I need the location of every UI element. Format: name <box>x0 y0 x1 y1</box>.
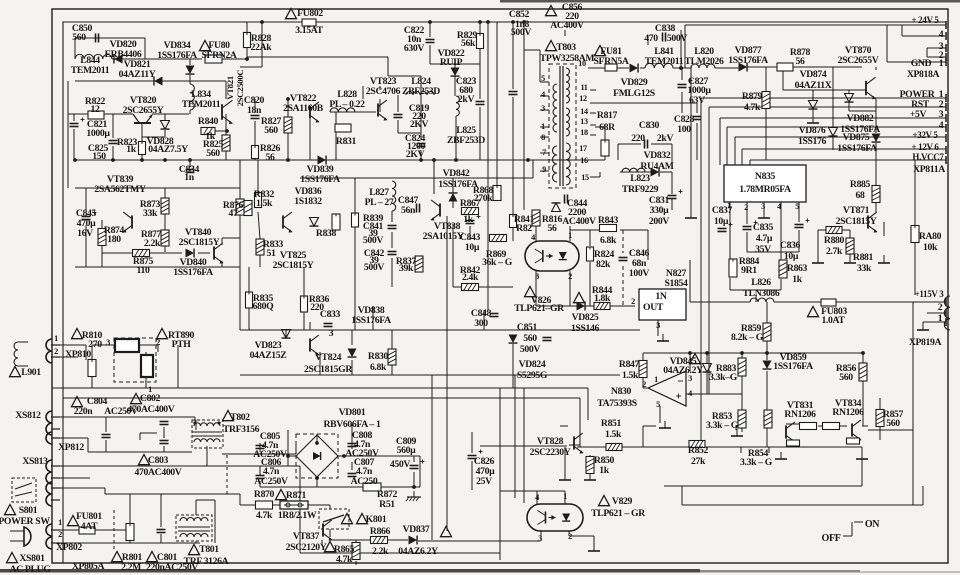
svg-text:R863: R863 <box>787 263 808 274</box>
svg-text:ON: ON <box>865 519 880 530</box>
wire <box>287 443 289 466</box>
warning triangle <box>690 354 701 364</box>
wire <box>642 426 644 447</box>
svg-text:AC250V: AC250V <box>254 476 288 487</box>
wire <box>782 67 784 90</box>
ground VT828e <box>564 473 566 480</box>
svg-text:R852: R852 <box>688 445 709 456</box>
wire <box>861 447 863 486</box>
junction <box>478 20 482 24</box>
svg-text:5: 5 <box>541 74 545 83</box>
wire <box>112 114 114 138</box>
wire <box>590 89 596 91</box>
wire <box>56 356 78 358</box>
junction <box>526 158 530 162</box>
wire <box>102 252 133 254</box>
optocoupler V826 <box>525 241 579 271</box>
inductor L824 <box>406 92 434 95</box>
junction b4 <box>412 485 416 489</box>
wire <box>254 99 256 113</box>
wire <box>729 278 731 290</box>
wire <box>105 417 107 432</box>
wire <box>741 149 743 165</box>
wire <box>780 202 782 260</box>
wire <box>927 312 946 314</box>
wire <box>455 116 457 160</box>
svg-text:4: 4 <box>541 90 545 99</box>
capacitor C842 <box>388 251 397 253</box>
wire <box>194 417 196 421</box>
resistor R828 <box>244 33 251 48</box>
inductor L828 <box>330 108 355 112</box>
diode C844d <box>552 203 561 212</box>
wire <box>766 301 768 303</box>
resistor R832b <box>244 201 252 216</box>
wire <box>569 226 571 241</box>
wire <box>690 301 750 303</box>
svg-text:04AZ15Z: 04AZ15Z <box>250 350 287 361</box>
wire <box>681 68 683 80</box>
svg-text:1.5k: 1.5k <box>256 198 273 209</box>
wire <box>452 224 454 287</box>
wire <box>774 301 821 303</box>
warning triangle <box>157 329 168 339</box>
wire <box>689 260 691 302</box>
wire <box>798 230 800 252</box>
ground V829 <box>593 544 595 551</box>
wire <box>742 148 946 150</box>
svg-text:680Q: 680Q <box>253 301 274 312</box>
wire <box>145 352 147 355</box>
wire <box>568 531 570 536</box>
wire <box>671 172 673 194</box>
svg-text:2kV: 2kV <box>657 133 674 144</box>
wire <box>52 387 588 389</box>
wire <box>735 136 946 138</box>
capacitor C845 <box>82 216 91 218</box>
transistor VT839 <box>131 215 133 228</box>
svg-text:100: 100 <box>677 124 691 135</box>
svg-text:1N: 1N <box>655 291 666 302</box>
svg-text:1n: 1n <box>184 172 194 183</box>
inductor L841 <box>645 63 673 68</box>
pin tick <box>945 21 947 29</box>
warning triangle <box>441 527 452 537</box>
svg-text:04AZ6.2Y: 04AZ6.2Y <box>398 546 438 557</box>
svg-text:12: 12 <box>91 104 100 115</box>
wire <box>849 254 851 260</box>
capacitor C802b <box>160 440 169 442</box>
wire <box>177 345 179 388</box>
capacitor C838 <box>662 33 664 42</box>
svg-text:56: 56 <box>266 152 275 163</box>
resistor coupling2 <box>823 423 840 430</box>
svg-text:R871: R871 <box>286 490 307 501</box>
wire <box>398 132 421 134</box>
wire <box>195 420 197 430</box>
capacitor C801 <box>157 529 166 531</box>
wire <box>512 22 514 89</box>
wire <box>564 30 566 36</box>
diode row2 <box>154 77 163 86</box>
svg-text:+5V: +5V <box>910 109 927 120</box>
warning triangle <box>574 293 585 303</box>
wire <box>682 504 923 506</box>
svg-text:150: 150 <box>92 151 106 162</box>
wire <box>73 129 75 160</box>
diode VD875 <box>872 134 881 143</box>
wire <box>879 398 881 410</box>
ground XP819A <box>922 323 924 330</box>
resistor R856 <box>859 363 867 381</box>
svg-text:R885: R885 <box>850 179 871 190</box>
capacitor C846 <box>619 257 628 259</box>
svg-text:2SC1815GR: 2SC1815GR <box>304 364 353 375</box>
capacitor C852 <box>509 91 518 93</box>
svg-text:1000µ: 1000µ <box>86 128 110 139</box>
wire <box>741 394 743 410</box>
warning triangle <box>223 411 234 421</box>
svg-text:VD874: VD874 <box>800 69 827 80</box>
wire <box>715 67 739 69</box>
wire <box>112 146 114 160</box>
wire <box>351 462 353 470</box>
wire <box>91 345 93 359</box>
svg-text:+32V 5: +32V 5 <box>912 130 938 140</box>
svg-text:R838: R838 <box>316 228 337 239</box>
svg-text:1: 1 <box>541 122 545 131</box>
wire <box>590 134 596 136</box>
svg-text:RA80: RA80 <box>919 231 942 242</box>
svg-text:4AT: 4AT <box>81 521 98 532</box>
wire <box>225 151 227 160</box>
svg-text:4.7µ: 4.7µ <box>756 233 773 244</box>
svg-text:2: 2 <box>54 347 58 356</box>
wire <box>569 535 594 537</box>
wire <box>912 302 914 505</box>
resistor R873 <box>161 198 169 214</box>
wire <box>221 238 223 245</box>
svg-text:ZBF253D: ZBF253D <box>402 86 440 97</box>
wire <box>75 80 226 82</box>
wire <box>480 445 567 447</box>
svg-text:1: 1 <box>568 231 572 240</box>
svg-text:+ 24V 5: + 24V 5 <box>911 15 939 25</box>
svg-text:300: 300 <box>474 318 488 329</box>
wire <box>532 160 534 178</box>
diode VD822 <box>451 68 460 77</box>
svg-text:R866: R866 <box>370 526 391 537</box>
svg-text:3: 3 <box>541 104 545 113</box>
wire <box>316 434 318 443</box>
wire <box>479 49 481 99</box>
junction b2 <box>315 476 319 480</box>
wire <box>338 455 420 457</box>
svg-text:04AZ7.5Y: 04AZ7.5Y <box>148 144 188 155</box>
wire <box>479 107 481 160</box>
wire <box>706 373 708 394</box>
wire <box>261 22 263 67</box>
wire <box>590 124 596 126</box>
svg-text:4: 4 <box>939 29 944 40</box>
resistor R878 <box>777 63 793 71</box>
svg-text:POWER SW: POWER SW <box>0 516 50 527</box>
svg-text:1SS176FA: 1SS176FA <box>773 361 813 372</box>
wire <box>105 440 107 452</box>
wire <box>157 345 159 352</box>
inductor C823coil <box>456 96 459 116</box>
svg-text:1k: 1k <box>463 214 473 225</box>
svg-text:10µ: 10µ <box>714 216 729 227</box>
svg-text:2SC2120Y: 2SC2120Y <box>286 542 327 553</box>
switch S801 box <box>12 478 36 502</box>
warning triangle <box>68 516 79 526</box>
wire <box>848 103 850 111</box>
ground VT834e <box>861 452 863 459</box>
wire <box>647 289 649 306</box>
warning triangle <box>200 41 211 51</box>
svg-text:K801: K801 <box>366 514 387 525</box>
ground N835p3 <box>763 211 765 218</box>
wire <box>413 472 415 487</box>
junction <box>73 158 77 162</box>
connector XS812 pins <box>46 411 52 423</box>
wire <box>351 443 353 449</box>
wire <box>487 22 489 310</box>
svg-text:1SS176FA: 1SS176FA <box>351 315 391 326</box>
svg-text:2: 2 <box>568 532 572 541</box>
wire <box>569 444 580 446</box>
wire <box>746 232 748 252</box>
wire <box>780 279 782 290</box>
svg-text:2: 2 <box>156 338 160 347</box>
wire <box>139 433 141 440</box>
svg-text:68R: 68R <box>599 122 616 133</box>
wire <box>616 67 629 69</box>
transistor VT837 <box>322 523 324 536</box>
svg-text:PL – 27: PL – 27 <box>365 197 394 208</box>
svg-text:6.8k: 6.8k <box>370 362 387 373</box>
resistor R852 <box>689 441 705 448</box>
wire <box>726 127 728 165</box>
wire <box>535 226 537 241</box>
wire <box>92 344 115 346</box>
svg-text:110: 110 <box>137 265 150 276</box>
svg-text:200V: 200V <box>649 216 669 227</box>
wire <box>195 500 197 515</box>
resistor R831 <box>335 124 351 132</box>
resistor R880 <box>826 227 842 234</box>
wire <box>469 226 471 240</box>
wire <box>129 542 131 543</box>
ground VD874 <box>812 116 814 123</box>
wire <box>536 305 577 307</box>
svg-text:ZBF253D: ZBF253D <box>447 135 485 146</box>
wire <box>222 237 240 239</box>
wire <box>164 130 166 137</box>
wire <box>479 22 481 34</box>
pin tick <box>945 124 947 132</box>
wire <box>879 426 881 440</box>
wire <box>590 159 596 161</box>
wire <box>727 126 946 128</box>
capacitor C841 <box>388 225 397 227</box>
svg-text:1: 1 <box>563 492 567 501</box>
wire <box>330 111 376 113</box>
svg-text:1SS176FA: 1SS176FA <box>173 267 213 278</box>
svg-text:TPW3258AM: TPW3258AM <box>540 53 595 64</box>
wire <box>705 446 862 448</box>
resistor R868 <box>493 186 501 201</box>
wire <box>500 490 565 492</box>
capacitor C806 <box>256 475 265 477</box>
resistor R840 <box>201 128 215 135</box>
diode VD882 <box>845 94 854 103</box>
warning triangle <box>72 397 83 407</box>
svg-text:1S1832: 1S1832 <box>294 196 322 207</box>
warning triangle <box>5 505 16 515</box>
capacitor C822 <box>426 39 435 41</box>
svg-text:39k: 39k <box>399 263 414 274</box>
wire <box>536 491 538 504</box>
capacitor C848 <box>490 313 499 315</box>
wire <box>798 202 800 222</box>
wire <box>902 35 946 37</box>
warning triangle <box>595 46 606 56</box>
svg-text:500V: 500V <box>511 27 531 38</box>
resistor R866 <box>371 537 388 544</box>
wire <box>659 406 661 423</box>
wire <box>883 255 885 260</box>
diode VD874 <box>809 101 818 110</box>
svg-text:1SS176FA: 1SS176FA <box>157 50 197 61</box>
wire <box>479 286 513 288</box>
svg-text:27k: 27k <box>691 456 706 467</box>
wire <box>564 491 566 504</box>
wire <box>240 504 256 506</box>
svg-text:2SC4706: 2SC4706 <box>366 86 401 97</box>
junction <box>419 158 423 162</box>
wire <box>300 552 500 554</box>
svg-text:AC400V: AC400V <box>550 20 584 31</box>
wire <box>862 381 864 426</box>
transistor VT820 <box>133 114 139 123</box>
svg-text:PTH: PTH <box>172 339 192 350</box>
wire <box>483 310 485 330</box>
wire <box>434 159 605 161</box>
wire <box>914 160 916 226</box>
svg-text:R879: R879 <box>742 91 763 102</box>
svg-text:XP819A: XP819A <box>909 337 942 348</box>
junction <box>315 441 319 445</box>
svg-text:AC400V: AC400V <box>562 216 596 227</box>
ground GNDrail <box>690 211 692 218</box>
svg-text:12: 12 <box>579 94 587 103</box>
wire <box>288 455 296 457</box>
wire <box>589 230 591 246</box>
svg-text:VD801: VD801 <box>339 407 366 418</box>
wire <box>862 425 868 427</box>
svg-text:25V: 25V <box>476 476 492 487</box>
wire <box>671 199 673 210</box>
wire <box>433 160 435 194</box>
wire <box>420 150 422 160</box>
wire <box>454 64 456 68</box>
svg-text:2.2k: 2.2k <box>144 238 161 249</box>
svg-text:6.8k: 6.8k <box>600 235 617 246</box>
wire <box>647 230 649 260</box>
svg-text:AC250: AC250 <box>351 476 378 487</box>
svg-text:TEM2011: TEM2011 <box>71 65 110 76</box>
resistor R869 <box>490 235 507 242</box>
svg-text:4: 4 <box>777 202 781 211</box>
wire <box>56 477 90 479</box>
warning triangle <box>72 329 83 339</box>
svg-text:2: 2 <box>938 302 943 313</box>
svg-text:51: 51 <box>267 248 276 259</box>
wire <box>418 540 540 542</box>
capacitor C819 <box>394 114 403 116</box>
wire <box>540 136 549 138</box>
optocoupler V829 <box>527 504 583 531</box>
svg-text:560: 560 <box>523 333 537 344</box>
wire <box>144 38 146 59</box>
transistor VT823 <box>377 103 379 116</box>
resistor R872 <box>363 483 381 491</box>
svg-text:TRF3156: TRF3156 <box>223 424 260 435</box>
transistor VT828 <box>573 436 575 449</box>
wire <box>387 57 389 76</box>
wire <box>765 108 767 160</box>
svg-text:SFRN2A: SFRN2A <box>201 50 236 61</box>
svg-text:330µ: 330µ <box>650 205 669 216</box>
ground R881 <box>849 256 851 263</box>
wire <box>198 252 210 254</box>
resistor VT831b <box>787 440 800 446</box>
svg-text:4.7k: 4.7k <box>256 510 273 521</box>
wire <box>842 229 850 231</box>
svg-text:TEM2011: TEM2011 <box>182 99 221 110</box>
thermistor RT890 box <box>141 355 153 377</box>
svg-text:2SC2655V: 2SC2655V <box>838 55 879 66</box>
capacitor C843 <box>466 220 475 222</box>
svg-text:2kV: 2kV <box>458 94 475 105</box>
svg-text:8: 8 <box>541 133 545 142</box>
resistor R875 <box>133 250 150 257</box>
resistor R830 <box>388 349 396 365</box>
wire <box>164 188 166 198</box>
wire <box>391 365 393 375</box>
svg-text:1SS176FA: 1SS176FA <box>837 143 877 154</box>
pin tick <box>945 53 947 61</box>
transistor VT824 <box>309 338 311 351</box>
wire <box>923 321 946 323</box>
junction <box>522 20 526 24</box>
ground opamp <box>664 421 666 428</box>
wire <box>681 105 683 113</box>
svg-text:XP802: XP802 <box>56 542 82 553</box>
wire <box>259 443 261 452</box>
junction <box>861 351 865 355</box>
svg-text:R870: R870 <box>254 489 275 500</box>
wire <box>818 229 826 231</box>
wire <box>875 143 877 150</box>
wire <box>362 86 364 99</box>
svg-text:1.8k: 1.8k <box>594 293 611 304</box>
inductor L827 <box>392 181 396 211</box>
wire <box>260 486 414 488</box>
wire <box>413 456 415 462</box>
